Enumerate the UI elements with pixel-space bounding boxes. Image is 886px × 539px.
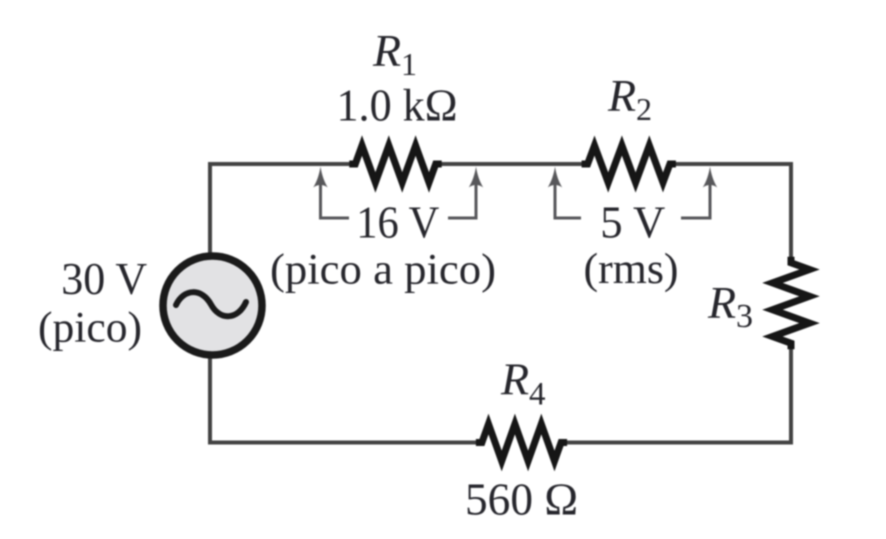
label R3 [707, 277, 753, 335]
resistor R2 [582, 146, 676, 183]
resistor R4 [476, 424, 567, 461]
label R2 [607, 70, 652, 127]
svg-text:2: 2 [636, 91, 652, 127]
wire R2 to top-right corner down to R3 [674, 164, 791, 258]
wire R4 to bottom-left corner up to source bottom [210, 358, 477, 443]
AC source VS body [163, 256, 262, 355]
wire R1 to R2 [440, 162, 583, 166]
label R1 [372, 25, 417, 82]
AC source sine symbol [176, 292, 246, 316]
measurement arrow left of R2 [548, 167, 581, 219]
measurement arrow left of R1 [313, 167, 349, 219]
svg-text:R: R [372, 25, 401, 76]
wire R3 to bottom-right corner to R4 [566, 348, 791, 443]
label R4 [500, 354, 546, 413]
svg-text:30 V: 30 V [61, 253, 147, 304]
svg-text:5 V: 5 V [600, 196, 665, 247]
svg-text:4: 4 [529, 377, 546, 413]
measurement arrow right of R2 [681, 167, 717, 219]
svg-text:3: 3 [736, 298, 753, 335]
svg-text:16 V: 16 V [356, 196, 439, 247]
svg-text:(pico a pico): (pico a pico) [270, 247, 496, 294]
resistor R1 [349, 146, 441, 183]
svg-text:R: R [607, 70, 636, 121]
measurement arrow right of R1 [448, 167, 483, 219]
svg-text:1.0 kΩ: 1.0 kΩ [337, 80, 458, 131]
svg-text:R: R [500, 354, 529, 405]
svg-text:R: R [707, 277, 736, 328]
svg-text:560 Ω: 560 Ω [465, 474, 578, 525]
svg-text:1: 1 [401, 46, 417, 82]
svg-text:(pico): (pico) [38, 305, 142, 352]
svg-text:(rms): (rms) [584, 246, 679, 293]
wire top-left: source top to R1 [210, 164, 351, 254]
resistor R3 [773, 257, 810, 349]
